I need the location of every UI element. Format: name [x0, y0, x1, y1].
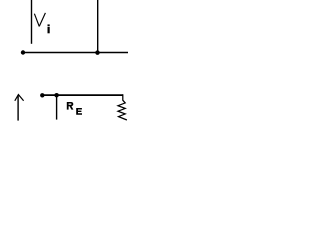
wire: right vertical lead from top edge	[97, 0, 99, 53]
node: junction dot	[95, 50, 100, 55]
node: bottom-left terminal dot	[40, 93, 44, 97]
resistor RE zigzag (cropped at bottom edge)	[118, 94, 127, 120]
wire: vertical wire down from emitter junction	[56, 95, 58, 119]
label RE	[67, 102, 82, 115]
wire: top horizontal wire	[23, 52, 128, 54]
label Vi	[34, 13, 49, 33]
wire: left vertical input lead from top edge	[31, 0, 33, 44]
node: input terminal dot	[21, 50, 25, 54]
node: emitter junction dot	[54, 93, 59, 98]
wire: bottom horizontal wire	[42, 94, 123, 96]
current source arrow (pointing up)	[15, 95, 24, 121]
